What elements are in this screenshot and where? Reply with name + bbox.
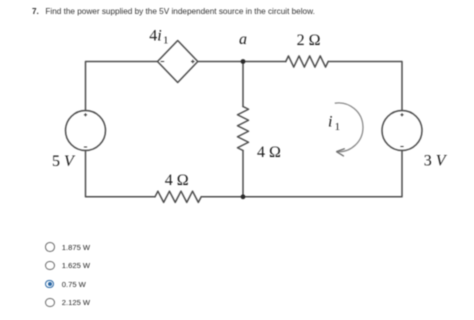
svg-text:a: a [239, 31, 247, 48]
svg-text:4 Ω: 4 Ω [257, 144, 281, 161]
svg-text:4i1: 4i1 [149, 27, 168, 46]
svg-text:3 V: 3 V [424, 152, 448, 169]
svg-text:5 V: 5 V [52, 153, 76, 170]
svg-text:i1: i1 [328, 114, 340, 133]
svg-text:2 Ω: 2 Ω [297, 32, 321, 49]
svg-text:4 Ω: 4 Ω [165, 172, 189, 189]
